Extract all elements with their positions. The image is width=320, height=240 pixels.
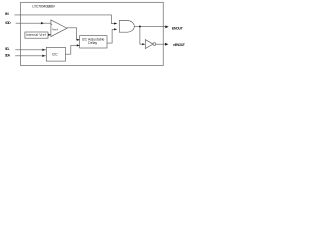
svg-text:nENOUT: nENOUT: [173, 43, 186, 47]
box internal Vref: [25, 32, 48, 38]
arrowhead nENOUT: [165, 43, 168, 46]
gate AND: [119, 21, 134, 33]
wire EN: [14, 15, 116, 24]
svg-text:SCL: SCL: [5, 47, 10, 51]
arrowhead comp to delay: [77, 39, 80, 41]
svg-text:LTC7004/3886V: LTC7004/3886V: [32, 5, 55, 9]
junction dot: [139, 25, 141, 27]
arrowhead EN to AND: [114, 22, 117, 24]
arrowhead VDD: [41, 22, 44, 24]
svg-text:EN: EN: [5, 12, 9, 16]
wire inverter out: [156, 43, 164, 45]
box I2C interface: [46, 47, 65, 61]
arrowhead inverter in: [142, 43, 145, 45]
wire VDD: [16, 22, 51, 24]
arrowhead SDA: [42, 55, 45, 57]
wire delay to AND: [107, 29, 117, 43]
wire nENOUT stub: [163, 43, 165, 45]
svg-text:Internal Vref: Internal Vref: [26, 33, 46, 37]
box I2C adjustable delay: [80, 36, 107, 48]
arrowhead vref: [48, 34, 51, 36]
wire ENOUT stub: [163, 25, 166, 27]
arrowhead i2c to delay: [77, 44, 80, 46]
wire junction drop to inverter: [140, 26, 143, 44]
svg-text:I2C: I2C: [52, 53, 58, 57]
wire SDA: [15, 55, 46, 57]
wire comparator output: [67, 28, 79, 40]
svg-text:VDD: VDD: [5, 21, 11, 25]
svg-text:SDA: SDA: [5, 53, 11, 57]
inverter bubble: [153, 43, 156, 46]
wire Vref to comparator: [48, 34, 51, 36]
op-amp comparator: [51, 20, 67, 37]
arrowhead delay to AND: [114, 28, 117, 30]
IC boundary frame: [21, 2, 164, 65]
arrowhead SCL: [42, 49, 45, 51]
wire AND output to ENOUT: [134, 25, 163, 27]
svg-text:+: +: [51, 22, 53, 26]
svg-text:Vref: Vref: [52, 27, 58, 31]
inverter triangle: [145, 40, 153, 49]
wire I2C to delay: [66, 45, 79, 54]
arrowhead ENOUT: [165, 25, 168, 28]
svg-text:Delay: Delay: [88, 41, 97, 45]
svg-text:ENOUT: ENOUT: [172, 27, 184, 31]
wire SCL: [15, 49, 46, 51]
